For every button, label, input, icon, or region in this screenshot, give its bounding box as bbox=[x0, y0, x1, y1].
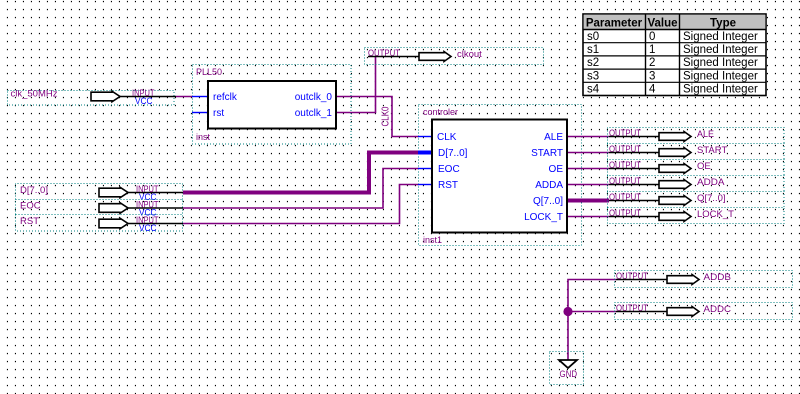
input pin clk_50MHz bbox=[8, 88, 177, 106]
svg-text:LOCK_T: LOCK_T bbox=[697, 209, 734, 220]
wire OE bbox=[568, 168, 609, 170]
input pin D[7..0] bbox=[16, 184, 184, 203]
svg-text:Q[7..0]: Q[7..0] bbox=[533, 196, 563, 207]
svg-text:START: START bbox=[531, 148, 563, 159]
svg-text:D[7..0]: D[7..0] bbox=[20, 185, 48, 196]
wire RST to controler bbox=[183, 185, 419, 224]
svg-text:s3: s3 bbox=[587, 70, 599, 82]
svg-text:ALE: ALE bbox=[697, 129, 714, 140]
svg-text:1: 1 bbox=[649, 44, 655, 56]
output pin Q[7..0] bbox=[608, 192, 785, 208]
svg-text:Q[7..0]: Q[7..0] bbox=[697, 193, 726, 204]
svg-text:PLL50: PLL50 bbox=[196, 67, 222, 77]
svg-text:inst: inst bbox=[196, 132, 211, 142]
svg-text:START: START bbox=[697, 145, 727, 156]
output pin START bbox=[608, 144, 785, 160]
wire LOCK_T bbox=[568, 216, 609, 218]
svg-text:Signed Integer: Signed Integer bbox=[683, 44, 758, 56]
output pin OE bbox=[608, 160, 785, 176]
svg-text:RST: RST bbox=[438, 180, 458, 191]
svg-text:Parameter: Parameter bbox=[586, 18, 643, 30]
wire clk_50MHz to refclk bbox=[176, 96, 193, 98]
svg-text:clk_50MHz: clk_50MHz bbox=[11, 89, 58, 100]
svg-text:ADDA: ADDA bbox=[697, 177, 725, 188]
svg-text:RST: RST bbox=[20, 216, 39, 227]
svg-text:Value: Value bbox=[647, 18, 677, 30]
output pin LOCK_T bbox=[608, 208, 785, 224]
svg-text:outclk_0: outclk_0 bbox=[295, 92, 333, 103]
svg-text:ADDA: ADDA bbox=[535, 180, 563, 191]
svg-text:rst: rst bbox=[213, 108, 224, 119]
svg-text:GND: GND bbox=[560, 369, 578, 379]
svg-text:EOC: EOC bbox=[438, 164, 460, 175]
svg-text:4: 4 bbox=[649, 84, 656, 96]
svg-text:2: 2 bbox=[649, 57, 655, 69]
block U1 PLL50 (inst) bbox=[192, 65, 351, 145]
svg-text:inst1: inst1 bbox=[423, 235, 442, 245]
block U2 controler (inst1) bbox=[418, 105, 582, 246]
ground GND bbox=[550, 352, 584, 385]
output pin ADDA bbox=[608, 176, 785, 192]
parameter table bbox=[583, 14, 766, 96]
svg-text:D[7..0]: D[7..0] bbox=[438, 148, 468, 159]
svg-text:ADDC: ADDC bbox=[704, 304, 732, 315]
svg-text:s0: s0 bbox=[587, 31, 599, 43]
svg-text:0: 0 bbox=[649, 31, 655, 43]
svg-text:outclk_1: outclk_1 bbox=[295, 108, 333, 119]
svg-text:Signed Integer: Signed Integer bbox=[683, 84, 758, 96]
svg-text:ALE: ALE bbox=[544, 132, 563, 143]
svg-text:3: 3 bbox=[649, 70, 655, 82]
svg-text:Signed Integer: Signed Integer bbox=[683, 57, 758, 69]
svg-text:OE: OE bbox=[697, 161, 711, 172]
wire START bbox=[568, 152, 609, 154]
svg-text:s2: s2 bbox=[587, 57, 599, 69]
svg-text:s4: s4 bbox=[587, 84, 600, 96]
wire EOC to controler bbox=[183, 169, 419, 209]
svg-text:controler: controler bbox=[423, 107, 458, 117]
svg-text:CLK: CLK bbox=[437, 132, 457, 143]
wire bus Q[7..0] bbox=[568, 199, 609, 203]
wire outclk_0 to CLK, net CLK0 bbox=[337, 97, 419, 137]
output pin clkout bbox=[365, 48, 544, 65]
wire ADDA bbox=[568, 184, 609, 186]
svg-text:VCC: VCC bbox=[135, 96, 153, 106]
wire outclk_1 to clkout bbox=[337, 57, 376, 113]
svg-text:LOCK_T: LOCK_T bbox=[524, 212, 563, 223]
svg-text:Type: Type bbox=[710, 18, 736, 30]
junction bbox=[563, 307, 572, 316]
output pin ALE bbox=[608, 128, 785, 144]
svg-text:refclk: refclk bbox=[213, 92, 238, 103]
wire ADDB/ADDC to GND bbox=[568, 280, 616, 361]
wire bus D[7..0] to controler bbox=[183, 153, 418, 193]
output pin ADDC bbox=[615, 303, 793, 320]
svg-text:CLK0: CLK0 bbox=[381, 106, 392, 126]
svg-text:clkout: clkout bbox=[457, 49, 482, 60]
svg-text:Signed Integer: Signed Integer bbox=[683, 31, 758, 43]
svg-text:ADDB: ADDB bbox=[704, 272, 732, 283]
wire ALE bbox=[568, 136, 609, 138]
svg-text:Signed Integer: Signed Integer bbox=[683, 70, 758, 82]
svg-text:VCC: VCC bbox=[139, 223, 157, 233]
svg-text:EOC: EOC bbox=[20, 201, 41, 212]
input pin RST bbox=[16, 215, 184, 234]
svg-text:s1: s1 bbox=[587, 44, 599, 56]
input pin EOC bbox=[16, 200, 184, 218]
svg-text:OE: OE bbox=[549, 164, 564, 175]
output pin ADDB bbox=[615, 271, 793, 288]
